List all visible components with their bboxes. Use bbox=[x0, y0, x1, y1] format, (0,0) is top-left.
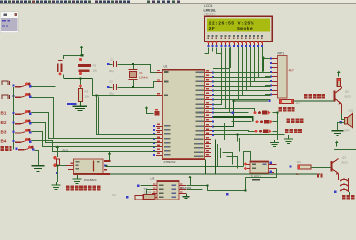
wire B1 to MCU bbox=[32, 113, 157, 139]
ground speaker bbox=[332, 130, 344, 132]
wire K1 net stub bbox=[32, 86, 56, 88]
resistor R2 vertical bbox=[79, 89, 83, 102]
red text bottom right corner bbox=[342, 195, 346, 199]
wire R3 to Q3 base bbox=[311, 167, 331, 169]
wire button common rail bbox=[13, 87, 15, 149]
button K2 bbox=[13, 95, 15, 97]
overview panel part list text bbox=[2, 20, 6, 22]
wire smoke input to transistor bbox=[294, 100, 334, 102]
svg-text:LCD1: LCD1 bbox=[204, 4, 213, 8]
net label door1 bbox=[2, 81, 8, 85]
label alarm row2 red text bbox=[287, 118, 291, 122]
button K1 bbox=[13, 84, 15, 86]
LCD green screen bbox=[207, 19, 270, 32]
power arrow EA pin bbox=[145, 106, 149, 109]
button B3 bbox=[13, 131, 15, 133]
svg-text:LS1: LS1 bbox=[349, 109, 354, 113]
wire MCU bottom verticals bbox=[205, 160, 207, 175]
svg-text:10k: 10k bbox=[85, 94, 90, 98]
wire P2 manual alarm net bbox=[213, 101, 268, 127]
ground K5 bbox=[32, 165, 45, 167]
wire crystal to XTAL pins bbox=[118, 65, 157, 73]
wire VCC to capacitor C3 bbox=[64, 55, 83, 57]
label alarm row3 red text bbox=[285, 129, 289, 133]
button B4 bbox=[13, 140, 15, 142]
transistor Q2 bbox=[334, 91, 336, 102]
capacitor C3 electrolytic bbox=[58, 60, 63, 62]
svg-text:4k7: 4k7 bbox=[289, 68, 294, 72]
wire Q3 emitter down bbox=[338, 174, 340, 181]
LED alarm row2 bbox=[256, 120, 259, 123]
wire alarm cathode rail bbox=[277, 114, 279, 141]
MCU right pins P1/ALE/PSEN bbox=[205, 139, 211, 141]
capacitor C2 bbox=[109, 87, 113, 89]
svg-text:1k: 1k bbox=[296, 172, 300, 176]
DS1302 left pins bbox=[152, 185, 157, 187]
blue dot bottom left bbox=[226, 193, 229, 196]
svg-text:R1: R1 bbox=[93, 64, 97, 68]
optocoupler U4 inner text bbox=[252, 164, 256, 166]
MCU left pins P3.0-P3.7 bbox=[156, 126, 162, 128]
MCU left pin XTAL2 bbox=[156, 81, 162, 83]
wire bundle junction vertical bbox=[96, 95, 98, 135]
LCD LM016L display frame bbox=[204, 16, 273, 42]
svg-text:Q2: Q2 bbox=[345, 90, 349, 94]
resistor R1 value text bbox=[79, 69, 90, 72]
ground DS1302 bbox=[186, 194, 188, 197]
net label blue bar bbox=[67, 103, 77, 105]
wire sensor column bbox=[57, 151, 59, 158]
wire B4 to MCU bbox=[32, 141, 157, 152]
svg-text:2F: 2F bbox=[209, 26, 215, 32]
wire bus MCU P0 to LCD data and RP1 bbox=[213, 72, 271, 74]
wire emitter to speaker bbox=[341, 104, 343, 114]
svg-text:P(1): P(1) bbox=[63, 148, 69, 152]
DS1302 inner pin text bbox=[159, 185, 164, 187]
wire bottom right edge bbox=[349, 192, 351, 199]
node dot speaker bbox=[340, 121, 343, 124]
label manual alarm red text bbox=[304, 94, 308, 99]
optocoupler right pins bbox=[268, 164, 276, 166]
svg-text:12MHz: 12MHz bbox=[139, 76, 148, 80]
crystal Y2 bbox=[143, 195, 155, 200]
wire B2 to MCU bbox=[32, 123, 157, 143]
node dot reset top bbox=[79, 58, 82, 61]
wire RP1 pull-up links bbox=[265, 72, 271, 74]
label alarm row1 red text bbox=[279, 107, 283, 111]
relay component bottom right bbox=[340, 179, 348, 181]
wire right edge bbox=[334, 149, 356, 151]
wire P2.3 to alarm row2 thick bbox=[213, 117, 253, 122]
svg-text:C1: C1 bbox=[110, 57, 114, 61]
wire K2 down branch bbox=[32, 98, 54, 139]
DS18B20 left pins bbox=[66, 165, 73, 167]
optocoupler left pins bbox=[245, 164, 251, 166]
wire DS1302 vcc bbox=[187, 182, 191, 186]
svg-text:10k: 10k bbox=[93, 69, 98, 73]
respack RP1 pins bbox=[271, 58, 277, 60]
svg-text:X1: X1 bbox=[139, 71, 143, 75]
ground alarm rows bbox=[274, 140, 276, 143]
top toolbar strip bbox=[0, 0, 356, 4]
ground smoke net bbox=[288, 135, 290, 139]
MCU left pin 31 with red mark bbox=[155, 111, 160, 116]
DS1302 body bbox=[157, 181, 179, 201]
power arrow lower right bbox=[335, 141, 339, 144]
svg-text:22:26:55 V:25%: 22:26:55 V:25% bbox=[209, 20, 254, 26]
wire long ground rail bbox=[110, 173, 320, 175]
svg-text:R3: R3 bbox=[297, 160, 301, 164]
node dot reset bottom bbox=[79, 72, 82, 75]
MCU U1 part number AT89C52 bbox=[162, 158, 205, 160]
respack RP1 body bbox=[277, 56, 287, 99]
svg-text:SPK: SPK bbox=[344, 129, 350, 133]
wire K5 to ground bbox=[35, 151, 39, 166]
wire DS1302 left connections bbox=[141, 185, 153, 187]
svg-text:Smoke: Smoke bbox=[237, 26, 253, 32]
LED alarm row3 bbox=[255, 130, 258, 133]
optocoupler U4 body bbox=[250, 161, 268, 173]
resistor R1 horizontal bbox=[78, 64, 91, 67]
net label door2 bbox=[2, 95, 8, 99]
wire P2.1 to alarm row1 bbox=[214, 109, 255, 113]
power arrow DS1302 VCC bbox=[188, 176, 192, 179]
DS18B20 inner marking bbox=[93, 161, 95, 172]
wire speaker to ground bbox=[342, 114, 345, 120]
svg-text:B4: B4 bbox=[1, 139, 7, 144]
svg-text:B2: B2 bbox=[1, 120, 7, 125]
thermistor column red marks bbox=[53, 156, 57, 160]
button B2 bbox=[13, 121, 15, 123]
wire P2.7 to ground net bbox=[214, 135, 238, 142]
transistor Q3 bbox=[331, 161, 333, 172]
ground sensor column bbox=[56, 182, 58, 185]
wire thermistor to sensor bbox=[57, 165, 66, 167]
power arrow buzzer VCC bbox=[337, 71, 341, 74]
svg-text:RP1: RP1 bbox=[278, 51, 285, 55]
svg-text:U3: U3 bbox=[151, 177, 155, 181]
power arrow DS18B20 VDD bbox=[108, 152, 112, 155]
overview panel window bbox=[0, 12, 19, 34]
svg-text:B3: B3 bbox=[1, 129, 7, 134]
svg-text:R2: R2 bbox=[85, 89, 89, 93]
LCD pin name row bbox=[208, 35, 210, 37]
wire optocoupler output loop bbox=[246, 169, 277, 178]
ground reset resistor bbox=[80, 102, 82, 107]
wire reset node rail bbox=[64, 78, 93, 80]
label DS18B20 temperature sensor red text bbox=[66, 186, 70, 191]
MCU U1 AT89C52 body bbox=[162, 69, 205, 159]
wire DS1302 clk to right bbox=[187, 186, 231, 191]
power arrow sensor VCC bbox=[55, 145, 59, 148]
pullup resistor R smoke bbox=[269, 100, 271, 102]
wire P2.4 to alarm row2 bbox=[232, 121, 252, 123]
LED alarm row1 bbox=[254, 111, 257, 114]
wire RST to MCU bbox=[93, 79, 157, 96]
DS18B20 right pins bbox=[104, 160, 111, 162]
wire optocoupler feeds bbox=[223, 153, 233, 165]
LCD pins bbox=[208, 42, 210, 47]
ground DS18B20 bbox=[77, 175, 79, 179]
power arrow reset VCC bbox=[80, 46, 84, 49]
svg-text:DS18B20: DS18B20 bbox=[84, 178, 97, 182]
wire P2.2 row bbox=[214, 112, 249, 114]
capacitor C1 bbox=[109, 64, 113, 66]
blue node dot crystal bbox=[126, 196, 129, 199]
svg-text:9013: 9013 bbox=[345, 95, 352, 99]
wire base manual alarm bbox=[333, 101, 336, 103]
capacitor bottom left red bbox=[135, 196, 144, 201]
MCU right pins P2.0-P2.7 bbox=[205, 104, 213, 106]
svg-text:30p: 30p bbox=[109, 69, 114, 73]
svg-text:B1: B1 bbox=[1, 111, 7, 116]
crystal X1 bbox=[129, 69, 138, 71]
resistor R3 bbox=[290, 165, 292, 167]
wire LCD control RS RW E to MCU P2 bbox=[214, 48, 222, 105]
respack RP1 power arrow bbox=[262, 56, 266, 59]
blue node dot near DS1302 bbox=[137, 185, 140, 188]
wire sensor DQ long rail bbox=[107, 166, 244, 168]
svg-text:AT89C52: AT89C52 bbox=[164, 160, 176, 164]
MCU left pin RST bbox=[156, 95, 162, 97]
DS18B20 body bbox=[73, 159, 103, 175]
label small red chinese bbox=[317, 174, 319, 178]
MCU right pins P0.0-P0.7 bbox=[205, 72, 213, 74]
svg-text:32768: 32768 bbox=[144, 191, 152, 195]
button K5 bbox=[16, 148, 18, 150]
MCU left pin XTAL1 bbox=[156, 72, 162, 74]
button B1 bbox=[13, 112, 15, 114]
wire LCD power pins bbox=[205, 48, 209, 54]
svg-text:C2: C2 bbox=[109, 80, 113, 84]
resistor collector small bbox=[337, 79, 340, 87]
wire P2.5 to alarm row3 bbox=[214, 131, 256, 132]
DS1302 right pins bbox=[179, 185, 186, 187]
svg-text:U1: U1 bbox=[164, 65, 168, 69]
wire B3 to MCU bbox=[32, 132, 157, 147]
speaker LS1 bbox=[345, 118, 348, 124]
label K5 chinese bbox=[1, 146, 5, 151]
svg-text:9013: 9013 bbox=[342, 161, 349, 165]
junction dots bbox=[132, 63, 134, 65]
svg-text:C4: C4 bbox=[112, 193, 116, 197]
overview panel icons bbox=[4, 13, 7, 16]
svg-text:Q3: Q3 bbox=[342, 156, 346, 160]
